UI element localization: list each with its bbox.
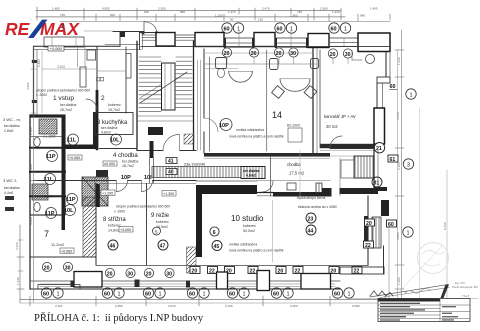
- corridor north wall right (kancelar south): [330, 148, 383, 150]
- circled 60-1 pair B top: [275, 23, 285, 33]
- room8/9 divider: [146, 184, 148, 266]
- svg-text:štuková omítka do v 4080: štuková omítka do v 4080: [298, 205, 337, 209]
- south stoop: [38, 285, 80, 290]
- right wing wc room: [354, 156, 374, 178]
- west wall upper: [33, 46, 35, 115]
- right dim ticks: [395, 50, 404, 289]
- corridor south wall thick mid: [196, 180, 257, 182]
- kancelar west wall: [319, 50, 321, 148]
- svg-text:22: 22: [365, 243, 371, 249]
- south pier 5: [301, 274, 331, 290]
- svg-text:omítka odstraněna: omítka odstraněna: [229, 243, 257, 247]
- room7 south wall: [30, 256, 96, 258]
- room8 west wall: [95, 184, 97, 266]
- svg-text:Pavla Hňupková, Mři: Pavla Hňupková, Mři: [452, 285, 478, 289]
- svg-text:2.380: 2.380: [158, 7, 166, 11]
- right wing east wall: [373, 150, 375, 190]
- svg-text:2,8m2: 2,8m2: [4, 129, 14, 133]
- circled 30 bottom r9: [165, 268, 174, 277]
- kuchynka west wall dark: [93, 112, 97, 148]
- svg-text:20 m2: 20 m2: [326, 124, 338, 129]
- svg-text:2: 2: [61, 24, 64, 30]
- window kancelar: [329, 37, 358, 39]
- title block text bars left: [380, 303, 425, 321]
- entry door jamb dark: [120, 32, 125, 38]
- boxed 22 bottom d: [248, 267, 258, 274]
- svg-text:ker.dlažba: ker.dlažba: [60, 103, 76, 107]
- corridor divider x270: [270, 157, 272, 196]
- corridor north wall left: [100, 148, 138, 150]
- svg-text:3 WC 2,: 3 WC 2,: [3, 178, 17, 183]
- svg-text:600: 600: [110, 13, 115, 17]
- circled 30 bottom r8: [126, 268, 135, 277]
- svg-text:chodba: chodba: [287, 162, 301, 167]
- svg-text:980: 980: [360, 14, 365, 18]
- room14 inner ledge: [204, 52, 313, 54]
- svg-text:8.430: 8.430: [443, 222, 447, 230]
- zigzag logo: [370, 291, 393, 296]
- room14 west door arc: [204, 118, 218, 132]
- svg-text:3 WC - m,: 3 WC - m,: [3, 117, 21, 122]
- svg-text:4,8m2: 4,8m2: [246, 174, 256, 178]
- svg-text:3.880: 3.880: [396, 232, 400, 240]
- vstup pilaster: [80, 67, 86, 87]
- sink 1: [216, 58, 227, 69]
- svg-text:14,8m2: 14,8m2: [108, 229, 120, 233]
- svg-text:koberec: koberec: [108, 103, 121, 107]
- wc bowl 1: [34, 137, 40, 146]
- sketch dark flag: [441, 285, 450, 299]
- svg-text:stropní podhled sádrokarton 60: stropní podhled sádrokarton 600-600: [36, 89, 90, 93]
- circled 44 studio: [306, 225, 316, 235]
- svg-text:nová omítka na plášťo a cem ná: nová omítka na plášťo a cem nástřik: [229, 249, 284, 253]
- svg-text:20: 20: [330, 52, 336, 58]
- svg-text:20: 20: [192, 269, 198, 275]
- circled 30 room14 a: [249, 48, 258, 57]
- north wall pier 1: [156, 33, 175, 47]
- svg-text:10P: 10P: [219, 123, 229, 129]
- circled 6 studio: [210, 227, 219, 236]
- svg-text:20: 20: [278, 269, 284, 275]
- svg-text:v -3200: v -3200: [114, 210, 125, 214]
- circled 5 room9: [153, 227, 161, 235]
- sink 3: [311, 59, 319, 69]
- right dim line d: [419, 108, 421, 298]
- window room14 left: [224, 37, 254, 39]
- south wall outer: [30, 288, 340, 290]
- bowl 1: [217, 69, 224, 78]
- left dim ticks vertical: [18, 69, 36, 271]
- svg-text:30: 30: [251, 51, 257, 57]
- right chain texts: [397, 57, 447, 285]
- shower tilted 2: [304, 86, 317, 99]
- stair exit door arc: [163, 135, 179, 151]
- svg-text:4.955: 4.955: [102, 7, 110, 11]
- svg-text:60: 60: [229, 291, 235, 297]
- room14 sill ledge line: [204, 63, 316, 65]
- svg-text:Tha 8: Tha 8: [462, 294, 470, 298]
- dimension numbers top: [52, 7, 378, 22]
- entry recess face line: [113, 31, 144, 33]
- svg-text:1: 1: [287, 291, 290, 297]
- south pier 1: [74, 272, 102, 288]
- sketch diagonals above titleblock: [370, 285, 448, 298]
- svg-text:1: 1: [57, 291, 60, 297]
- svg-text:60: 60: [331, 26, 337, 32]
- svg-text:1.900: 1.900: [320, 7, 328, 11]
- south wall inner: [30, 280, 340, 282]
- room2 east wall: [125, 47, 127, 113]
- svg-text:3.110: 3.110: [55, 304, 63, 308]
- right dim line b: [388, 225, 390, 298]
- boxed 60 right: [387, 220, 397, 227]
- svg-text:+0.060: +0.060: [50, 46, 63, 51]
- circled 20 room14 a: [222, 48, 231, 57]
- svg-text:11,2m2: 11,2m2: [51, 242, 65, 247]
- svg-text:+1.300: +1.300: [163, 192, 174, 196]
- room14 stall divider left: [209, 57, 211, 151]
- shaft lines: [197, 60, 199, 150]
- room14 stall divider mid: [266, 50, 268, 151]
- svg-text:30: 30: [166, 271, 172, 277]
- svg-text:1.100: 1.100: [215, 14, 223, 18]
- left dim line inner: [33, 46, 35, 302]
- kancelar door arc: [330, 136, 342, 148]
- svg-text:4 chodba: 4 chodba: [113, 153, 138, 159]
- stair lower dark wall: [148, 127, 163, 135]
- svg-text:60: 60: [390, 84, 396, 90]
- kancelar east pier: [374, 108, 385, 144]
- svg-text:kancelář JP + AV: kancelář JP + AV: [324, 114, 356, 119]
- svg-text:4.955: 4.955: [26, 82, 30, 90]
- signature squiggle: [405, 289, 430, 294]
- stair lower landing lines: [138, 115, 193, 117]
- kuchynka south wall dark: [63, 145, 97, 150]
- svg-text:10 studio: 10 studio: [231, 214, 264, 223]
- circled 60-1 pair A top: [222, 23, 232, 33]
- north wall pier 2: [195, 33, 224, 47]
- east pier hatch: [372, 217, 381, 248]
- studio east wall: [367, 196, 369, 265]
- room14 east wall: [312, 49, 314, 154]
- svg-text:8 střižna: 8 střižna: [103, 217, 126, 223]
- vstup closet: [87, 50, 96, 60]
- svg-text:koberec: koberec: [156, 220, 169, 224]
- corridor right small rect: [287, 183, 296, 190]
- left tiny marks: [5, 196, 14, 200]
- room9 door arc: [142, 181, 153, 192]
- door swing semicircle 1: [229, 71, 253, 82]
- circled 1 right mid: [403, 227, 413, 237]
- south window jambs dark: [71, 281, 75, 288]
- hall mat hatch: [82, 177, 108, 206]
- wc door hatch square 2: [32, 184, 48, 200]
- left chain texts: [16, 127, 33, 285]
- entrance porch: [44, 37, 84, 47]
- room8 door arc: [117, 181, 128, 192]
- level +1.200 box: [101, 190, 115, 196]
- right dim line a: [401, 30, 403, 300]
- room2 divider: [97, 70, 126, 72]
- room3 kuchynka box: [95, 113, 133, 135]
- svg-text:40: 40: [168, 170, 174, 176]
- stamp circle faint: [418, 243, 449, 274]
- east wall kancelar: [376, 83, 378, 110]
- svg-text:1.140: 1.140: [16, 277, 20, 285]
- svg-text:22: 22: [250, 269, 256, 275]
- door circled 47: [158, 240, 168, 250]
- svg-text:760: 760: [297, 10, 302, 14]
- right wing north dark pier: [381, 200, 389, 216]
- svg-text:3.260: 3.260: [290, 304, 298, 308]
- svg-text:1.965: 1.965: [370, 7, 378, 11]
- circled 60-1 pair C top: [329, 23, 339, 33]
- north wall pier 5: [358, 33, 390, 52]
- circled 20 room14 b: [274, 48, 283, 57]
- wc bowl 2: [34, 202, 40, 211]
- boxed 22 right a: [364, 241, 374, 248]
- wc block outer wall: [30, 115, 65, 215]
- svg-text:1.470: 1.470: [228, 10, 236, 14]
- svg-text:60: 60: [334, 291, 340, 297]
- svg-text:2.610: 2.610: [168, 304, 176, 308]
- kancelar column circle: [366, 55, 375, 64]
- svg-text:22: 22: [295, 269, 301, 275]
- boxed 22 bottom h: [352, 267, 362, 274]
- studio north door gap arcs: [262, 181, 273, 192]
- boxed 20 bottom e: [276, 267, 286, 274]
- east wall upper: [385, 52, 387, 78]
- svg-text:45: 45: [214, 244, 220, 250]
- entry door swing: [143, 22, 145, 32]
- svg-text:90: 90: [230, 18, 234, 22]
- boxed 61 right: [388, 155, 398, 162]
- right wing west wall: [364, 216, 368, 246]
- stair north face: [140, 32, 157, 34]
- vstup door arc: [86, 99, 97, 110]
- boxed 22 bottom f: [293, 267, 303, 274]
- circled 20 bottom r7: [42, 262, 51, 271]
- svg-text:3.130: 3.130: [225, 304, 233, 308]
- svg-text:20: 20: [107, 271, 113, 277]
- svg-text:19,7m2: 19,7m2: [108, 108, 120, 112]
- circled 1 right top: [406, 89, 416, 99]
- door swing semicircle 2: [280, 79, 310, 91]
- svg-text:47: 47: [160, 243, 166, 249]
- level 0.000 box: [103, 161, 117, 166]
- boxed 22 bottom b: [208, 267, 218, 274]
- kancelar south wall dark: [320, 144, 377, 148]
- upper face line left: [84, 30, 113, 32]
- svg-text:+3.000: +3.000: [120, 228, 131, 232]
- stair east wall: [193, 41, 195, 150]
- boxed 20 bottom a: [190, 267, 200, 274]
- svg-text:+1.200: +1.200: [102, 192, 113, 196]
- wc door hatch square 1: [39, 119, 57, 134]
- svg-text:barva stropu černá: barva stropu černá: [297, 196, 325, 200]
- svg-text:2: 2: [101, 95, 105, 102]
- room14 closet: [288, 128, 302, 142]
- kancelar niche: [351, 51, 353, 61]
- svg-text:980: 980: [180, 10, 185, 14]
- svg-text:1: 1: [290, 26, 293, 32]
- svg-text:4.130: 4.130: [396, 112, 400, 120]
- west wall window jambs: [32, 60, 37, 63]
- svg-text:9,8m2: 9,8m2: [101, 131, 111, 135]
- circled 20 bottom r8: [105, 268, 114, 277]
- studio north door gap: [332, 188, 340, 197]
- studio north wall: [257, 192, 273, 194]
- svg-text:1: 1: [118, 291, 121, 297]
- svg-text:4,4m2: 4,4m2: [4, 191, 14, 195]
- studio leader line: [272, 200, 274, 262]
- svg-text:omítka odstraněna: omítka odstraněna: [236, 128, 264, 132]
- corridor south upper line right: [257, 180, 330, 182]
- svg-text:9 režie: 9 režie: [151, 213, 170, 219]
- corridor west dark wall: [150, 141, 154, 158]
- svg-text:30: 30: [127, 271, 133, 277]
- svg-text:60: 60: [104, 291, 110, 297]
- svg-text:stropní podhled sádrokarton 60: stropní podhled sádrokarton 600-600: [116, 205, 170, 209]
- title block header bar: [378, 299, 440, 302]
- svg-text:2.470: 2.470: [262, 7, 270, 11]
- dimension ticks top: [37, 7, 390, 21]
- svg-text:17,5 m2: 17,5 m2: [289, 171, 305, 176]
- vstup east wall: [96, 47, 98, 150]
- level label +0.060: [48, 46, 64, 51]
- svg-text:2.680: 2.680: [352, 304, 360, 308]
- svg-text:10P: 10P: [121, 175, 131, 181]
- svg-text:900: 900: [144, 10, 149, 14]
- room2 fixtures: [97, 78, 100, 81]
- west wall lower: [29, 115, 31, 257]
- svg-text:koberec: koberec: [243, 224, 256, 228]
- svg-text:+0.060: +0.060: [69, 156, 80, 160]
- svg-text:20: 20: [224, 51, 230, 57]
- entry inner line: [105, 43, 140, 45]
- svg-text:1: 1: [237, 26, 240, 32]
- svg-text:1: 1: [410, 92, 413, 98]
- svg-text:v -3000: v -3000: [36, 93, 47, 97]
- svg-text:30: 30: [345, 52, 351, 58]
- svg-text:61: 61: [390, 157, 396, 163]
- circled 30 room14 b: [289, 48, 298, 57]
- room9/10 wall dark: [196, 185, 202, 257]
- svg-text:2.455: 2.455: [115, 304, 123, 308]
- caption PRILOHA: [34, 313, 203, 324]
- svg-text:18,7m2: 18,7m2: [122, 164, 134, 168]
- corridor ramp dark block: [241, 167, 265, 179]
- vstup west pilaster lines: [77, 47, 79, 67]
- svg-text:ker.dlažba: ker.dlažba: [101, 126, 117, 130]
- svg-text:1: 1: [407, 230, 410, 236]
- right wing south dark band: [322, 188, 378, 194]
- top dimension line 1: [36, 10, 341, 12]
- svg-text:nová omítka na plášťo a cem ná: nová omítka na plášťo a cem nástřik: [229, 135, 284, 139]
- svg-text:20: 20: [366, 221, 372, 227]
- svg-text:30: 30: [65, 265, 71, 271]
- boxed 20 right a: [365, 219, 375, 226]
- door 40 box: [166, 169, 177, 175]
- svg-text:50,0m2: 50,0m2: [243, 229, 255, 233]
- window room14 right: [275, 37, 308, 39]
- level box room7: [60, 248, 74, 253]
- svg-text:60: 60: [43, 291, 49, 297]
- corridor faint leader x300: [299, 150, 301, 200]
- svg-text:1.485: 1.485: [37, 59, 41, 67]
- svg-text:30: 30: [290, 51, 296, 57]
- north wall inner face: [141, 46, 390, 48]
- door 41 box: [166, 158, 177, 164]
- north wall pier 4: [308, 34, 329, 48]
- level box room8: [119, 227, 133, 233]
- corridor north wall mid (room14 south): [204, 153, 330, 157]
- south wall window lines: [40, 283, 335, 285]
- circled 31 right: [372, 177, 382, 187]
- leader ticks under circles: [227, 58, 348, 65]
- svg-text:1: 1: [159, 291, 162, 297]
- right dim line a2: [397, 50, 399, 298]
- room14 west wall: [203, 49, 205, 118]
- svg-text:20: 20: [331, 269, 337, 275]
- svg-text:1: 1: [243, 291, 246, 297]
- svg-text:20: 20: [276, 51, 282, 57]
- svg-text:26,7m2: 26,7m2: [60, 108, 72, 112]
- wc east wall dark: [62, 115, 66, 230]
- boxed 20 bottom c: [225, 267, 235, 274]
- right wing south wall: [340, 267, 384, 274]
- north wall left wing (double line): [34, 45, 121, 47]
- svg-text:1.430: 1.430: [332, 10, 340, 14]
- circled 23 studio: [306, 213, 316, 223]
- stair break line: [140, 72, 187, 103]
- room2 bay window: [126, 54, 131, 79]
- level +1.300 box: [162, 191, 176, 197]
- left dim line outer: [19, 225, 21, 303]
- svg-text:14: 14: [272, 110, 282, 120]
- svg-text:ker.dlažba: ker.dlažba: [4, 124, 20, 128]
- svg-text:7: 7: [44, 229, 49, 239]
- stair treads left flight: [139, 57, 161, 112]
- corridor ramp hatch: [152, 167, 241, 178]
- svg-text:ker.dlažba: ker.dlažba: [4, 186, 20, 190]
- title block rows: [378, 299, 470, 322]
- svg-text:46: 46: [110, 243, 116, 249]
- title block text bars right: [442, 306, 458, 321]
- corridor right hatched pier: [316, 183, 322, 193]
- stair west wall: [136, 41, 138, 150]
- svg-text:22: 22: [209, 269, 215, 275]
- svg-text:±0.000: ±0.000: [104, 162, 115, 166]
- svg-text:41: 41: [168, 159, 174, 165]
- bottom dim line: [20, 299, 400, 301]
- svg-text:60: 60: [273, 291, 279, 297]
- stair south wall: [137, 150, 163, 152]
- south pier 3: [217, 272, 228, 289]
- wc block inner wall mid: [30, 136, 61, 138]
- wc block north wall dark: [30, 115, 62, 118]
- boxed 20 bottom g: [329, 267, 339, 274]
- hall small dark rect: [96, 170, 108, 177]
- circled 20 kancelar: [328, 49, 337, 58]
- svg-text:1: 1: [203, 291, 206, 297]
- svg-text:60: 60: [189, 291, 195, 297]
- svg-text:ker.dlažba: ker.dlažba: [243, 169, 260, 173]
- level +0.060 hall: [68, 155, 82, 160]
- svg-text:10l: 10l: [144, 175, 152, 181]
- circled 30 kancelar: [343, 49, 352, 58]
- svg-text:+0.060: +0.060: [61, 249, 72, 253]
